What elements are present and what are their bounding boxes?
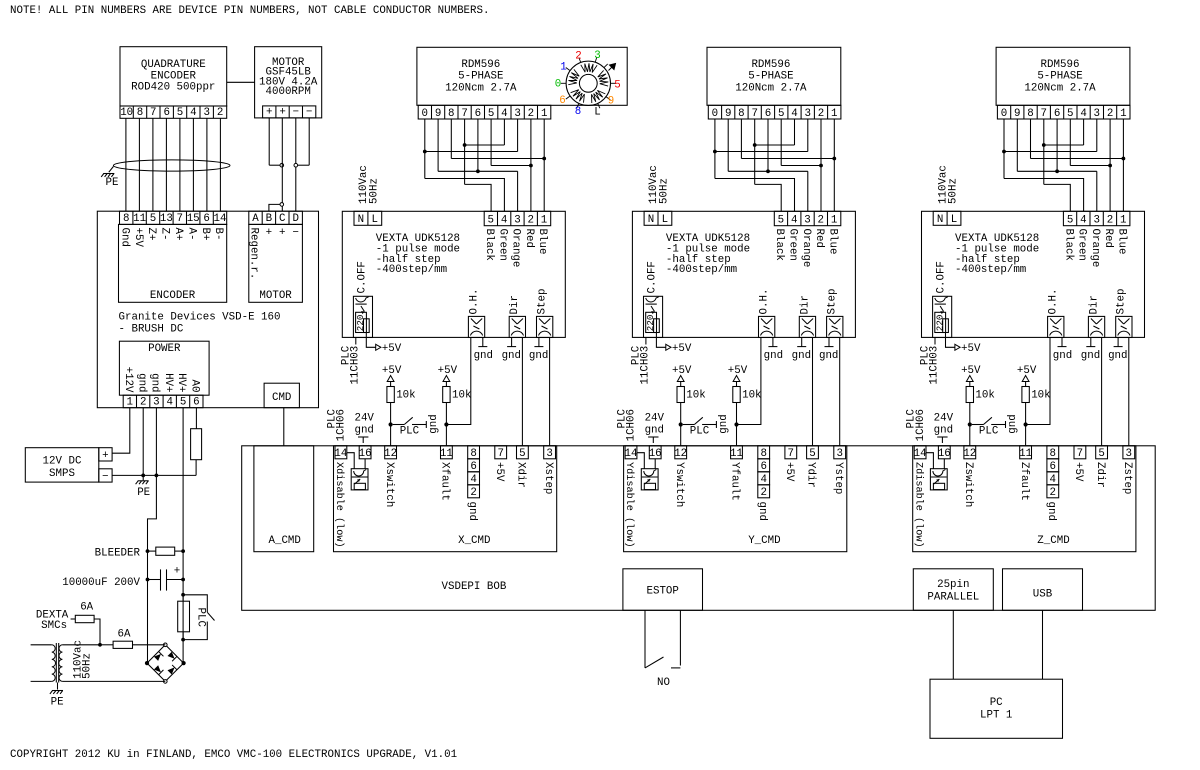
svg-text:ROD420 500ppr: ROD420 500ppr	[131, 81, 215, 93]
svg-text:PLC: PLC	[690, 425, 710, 437]
svg-text:220: 220	[934, 315, 945, 332]
svg-text:C: C	[279, 213, 286, 225]
svg-text:Step: Step	[827, 289, 839, 315]
svg-text:Yfault: Yfault	[729, 462, 741, 501]
svg-text:PARALLEL: PARALLEL	[927, 592, 979, 604]
svg-text:120Ncm 2.7A: 120Ncm 2.7A	[445, 82, 517, 94]
svg-text:A_CMD: A_CMD	[268, 535, 300, 547]
svg-text:Dir: Dir	[509, 295, 521, 314]
svg-text:6: 6	[203, 213, 209, 225]
svg-text:14: 14	[625, 448, 638, 460]
svg-text:6: 6	[1054, 108, 1060, 120]
svg-text:2: 2	[818, 108, 824, 120]
svg-text:2: 2	[528, 108, 534, 120]
svg-text:4: 4	[501, 215, 507, 227]
svg-text:12: 12	[963, 448, 976, 460]
svg-text:3: 3	[514, 215, 520, 227]
svg-text:Orange: Orange	[800, 229, 812, 268]
svg-text:9: 9	[435, 108, 441, 120]
svg-text:16: 16	[359, 448, 372, 460]
svg-text:PLC: PLC	[979, 425, 999, 437]
svg-text:7: 7	[1077, 448, 1083, 460]
svg-text:5-PHASE: 5-PHASE	[1037, 71, 1082, 83]
svg-text:10k: 10k	[396, 390, 415, 402]
svg-text:11CH03: 11CH03	[929, 346, 941, 385]
svg-text:A: A	[252, 213, 259, 225]
svg-text:Zfault: Zfault	[1018, 462, 1030, 501]
svg-text:O.H.: O.H.	[468, 289, 480, 315]
svg-text:8: 8	[738, 108, 744, 120]
svg-text:+: +	[279, 227, 285, 239]
svg-text:5-PHASE: 5-PHASE	[748, 71, 793, 83]
svg-text:6A: 6A	[118, 629, 131, 641]
svg-text:9: 9	[1014, 108, 1020, 120]
svg-text:16: 16	[649, 448, 662, 460]
svg-text:-400step/mm: -400step/mm	[666, 264, 737, 276]
svg-text:Black: Black	[1062, 229, 1074, 261]
svg-text:7: 7	[461, 108, 467, 120]
svg-text:Z+: Z+	[145, 228, 157, 241]
svg-text:+5V: +5V	[961, 365, 981, 377]
svg-text:gnd: gnd	[149, 373, 161, 392]
svg-text:Y_CMD: Y_CMD	[748, 535, 780, 547]
svg-text:Green: Green	[787, 229, 799, 261]
svg-text:Ydir: Ydir	[805, 462, 817, 488]
svg-text:NOTE! ALL PIN NUMBERS ARE DEVI: NOTE! ALL PIN NUMBERS ARE DEVICE PIN NUM…	[10, 5, 489, 17]
svg-text:gnd: gnd	[474, 350, 493, 362]
svg-text:1: 1	[831, 215, 837, 227]
svg-text:2: 2	[528, 215, 534, 227]
svg-text:4: 4	[791, 215, 797, 227]
svg-text:gnd: gnd	[764, 350, 783, 362]
svg-text:B-: B-	[212, 228, 224, 241]
svg-text:- BRUSH DC: - BRUSH DC	[119, 323, 184, 335]
svg-text:Xdisable (low): Xdisable (low)	[333, 462, 345, 548]
svg-text:50Hz: 50Hz	[659, 178, 671, 204]
svg-text:N: N	[648, 214, 654, 226]
svg-text:+5V: +5V	[493, 462, 505, 482]
svg-text:50Hz: 50Hz	[81, 653, 93, 679]
svg-text:3: 3	[804, 215, 810, 227]
svg-text:Red: Red	[523, 229, 535, 248]
svg-text:−: −	[292, 227, 298, 239]
svg-text:7: 7	[150, 107, 156, 119]
svg-text:14: 14	[914, 448, 927, 460]
svg-text:10k: 10k	[975, 390, 994, 402]
svg-text:8: 8	[448, 108, 454, 120]
svg-text:D: D	[292, 213, 298, 225]
svg-text:L: L	[662, 214, 668, 226]
svg-text:50Hz: 50Hz	[948, 178, 960, 204]
svg-text:Green: Green	[496, 229, 508, 261]
svg-text:A-: A-	[185, 228, 197, 241]
svg-text:5: 5	[778, 108, 784, 120]
svg-text:2: 2	[1050, 487, 1056, 499]
svg-text:11: 11	[730, 448, 743, 460]
svg-text:5: 5	[614, 80, 620, 92]
svg-text:gnd: gnd	[502, 350, 521, 362]
svg-text:7: 7	[177, 213, 183, 225]
svg-text:1CH06: 1CH06	[626, 409, 638, 441]
svg-text:10k: 10k	[1031, 390, 1050, 402]
svg-text:Red: Red	[1102, 229, 1114, 248]
svg-text:120Ncm 2.7A: 120Ncm 2.7A	[1024, 82, 1096, 94]
svg-text:10: 10	[120, 107, 133, 119]
svg-text:PC: PC	[990, 697, 1003, 709]
svg-text:MOTOR: MOTOR	[259, 290, 292, 302]
svg-text:+5V: +5V	[961, 343, 981, 355]
svg-text:14: 14	[214, 213, 227, 225]
svg-text:gnd: gnd	[934, 424, 953, 436]
svg-text:Blue: Blue	[826, 229, 838, 255]
svg-text:11: 11	[440, 448, 453, 460]
svg-text:−: −	[102, 471, 108, 483]
svg-text:+5V: +5V	[382, 343, 402, 355]
svg-text:+5V: +5V	[672, 365, 692, 377]
svg-text:CMD: CMD	[272, 392, 291, 404]
svg-text:10k: 10k	[686, 390, 705, 402]
svg-text:Ystep: Ystep	[832, 462, 844, 494]
svg-text:gnd: gnd	[645, 424, 664, 436]
svg-text:+5V: +5V	[1017, 365, 1037, 377]
svg-text:gnd: gnd	[819, 350, 838, 362]
svg-text:4: 4	[1080, 215, 1086, 227]
svg-text:USB: USB	[1033, 589, 1053, 601]
svg-text:8: 8	[137, 107, 143, 119]
svg-text:gnd: gnd	[135, 373, 147, 392]
svg-text:A0: A0	[189, 380, 201, 393]
svg-text:gnd: gnd	[1081, 350, 1100, 362]
svg-text:6: 6	[193, 397, 199, 409]
svg-text:1: 1	[560, 62, 566, 74]
svg-text:3: 3	[836, 448, 842, 460]
svg-text:HV+: HV+	[162, 373, 174, 392]
svg-text:HV+: HV+	[175, 373, 187, 392]
svg-text:Yswitch: Yswitch	[673, 462, 685, 507]
svg-text:5: 5	[488, 108, 494, 120]
svg-text:PLC: PLC	[195, 608, 207, 628]
svg-text:9: 9	[608, 96, 614, 108]
svg-text:SMPS: SMPS	[49, 468, 75, 480]
svg-text:Ydisable (low): Ydisable (low)	[623, 462, 635, 548]
svg-text:O.H.: O.H.	[1048, 289, 1060, 315]
svg-text:5: 5	[1067, 108, 1073, 120]
svg-text:C.OFF: C.OFF	[646, 261, 658, 293]
svg-text:10000uF 200V: 10000uF 200V	[62, 577, 140, 589]
svg-text:L: L	[594, 107, 600, 119]
svg-text:+5V: +5V	[728, 365, 748, 377]
svg-text:3: 3	[1126, 448, 1132, 460]
svg-text:gnd: gnd	[1053, 350, 1072, 362]
svg-text:ENCODER: ENCODER	[150, 290, 196, 302]
svg-text:BLEEDER: BLEEDER	[95, 547, 141, 559]
svg-text:Zdir: Zdir	[1094, 462, 1106, 488]
svg-text:5: 5	[180, 397, 186, 409]
svg-text:POWER: POWER	[148, 343, 181, 355]
svg-text:6: 6	[475, 108, 481, 120]
svg-text:Dir: Dir	[1088, 295, 1100, 314]
svg-text:24V: 24V	[645, 412, 665, 424]
svg-text:+: +	[266, 227, 272, 239]
svg-text:Dir: Dir	[799, 295, 811, 314]
svg-text:ESTOP: ESTOP	[646, 586, 678, 598]
svg-text:14: 14	[334, 448, 347, 460]
svg-text:gnd: gnd	[1007, 414, 1019, 433]
svg-text:2: 2	[470, 487, 476, 499]
svg-text:gnd: gnd	[428, 414, 440, 433]
svg-text:2: 2	[818, 215, 824, 227]
svg-text:220: 220	[645, 315, 656, 332]
svg-text:3: 3	[1094, 108, 1100, 120]
svg-text:3: 3	[514, 108, 520, 120]
svg-text:1: 1	[1120, 108, 1126, 120]
svg-text:Orange: Orange	[1089, 229, 1101, 268]
svg-text:C.OFF: C.OFF	[356, 261, 368, 293]
svg-text:+: +	[102, 450, 108, 462]
svg-text:24V: 24V	[354, 412, 374, 424]
svg-text:8: 8	[123, 213, 129, 225]
svg-text:5: 5	[1067, 215, 1073, 227]
svg-text:11: 11	[133, 213, 146, 225]
svg-text:Gnd: Gnd	[118, 228, 130, 247]
svg-text:7: 7	[788, 448, 794, 460]
svg-text:3: 3	[1093, 215, 1099, 227]
svg-text:1: 1	[1120, 215, 1126, 227]
svg-text:Xfault: Xfault	[439, 462, 451, 501]
svg-text:6: 6	[163, 107, 169, 119]
svg-text:15: 15	[187, 213, 200, 225]
svg-text:Zstep: Zstep	[1121, 462, 1133, 494]
svg-text:+5V: +5V	[382, 365, 402, 377]
svg-text:6: 6	[765, 108, 771, 120]
svg-text:6A: 6A	[80, 602, 93, 614]
svg-text:C.OFF: C.OFF	[936, 261, 948, 293]
svg-text:Regen.r.: Regen.r.	[248, 228, 260, 280]
svg-text:VSDEPI BOB: VSDEPI BOB	[442, 581, 507, 593]
svg-text:+: +	[266, 107, 272, 119]
svg-text:1: 1	[541, 215, 547, 227]
svg-text:24V: 24V	[934, 412, 954, 424]
svg-text:7: 7	[751, 108, 757, 120]
svg-text:A+: A+	[172, 228, 184, 241]
svg-text:LPT 1: LPT 1	[980, 710, 1012, 722]
svg-text:8: 8	[1027, 108, 1033, 120]
svg-text:10k: 10k	[742, 390, 761, 402]
svg-text:PE: PE	[106, 177, 119, 189]
svg-text:4: 4	[791, 108, 797, 120]
svg-text:RDM596: RDM596	[1041, 59, 1080, 71]
svg-text:-400step/mm: -400step/mm	[376, 264, 447, 276]
svg-text:+5V: +5V	[783, 462, 795, 482]
svg-text:Green: Green	[1076, 229, 1088, 261]
svg-text:B: B	[266, 213, 273, 225]
svg-text:12: 12	[384, 448, 397, 460]
svg-text:COPYRIGHT 2012 KU in FINLAND,: COPYRIGHT 2012 KU in FINLAND, EMCO VMC-1…	[10, 749, 457, 761]
svg-text:5: 5	[809, 448, 815, 460]
svg-text:3: 3	[594, 50, 600, 62]
svg-text:+5V: +5V	[672, 343, 692, 355]
svg-text:gnd: gnd	[354, 424, 373, 436]
svg-text:Z-: Z-	[159, 228, 171, 241]
svg-text:PE: PE	[137, 487, 150, 499]
svg-text:+5V: +5V	[1072, 462, 1084, 482]
svg-text:5: 5	[488, 215, 494, 227]
svg-text:−: −	[306, 107, 312, 119]
svg-text:Xswitch: Xswitch	[383, 462, 395, 507]
svg-text:0: 0	[712, 108, 718, 120]
svg-text:2: 2	[217, 107, 223, 119]
svg-text:+: +	[279, 107, 285, 119]
svg-text:16: 16	[938, 448, 951, 460]
svg-text:13: 13	[160, 213, 173, 225]
svg-text:Blue: Blue	[1116, 229, 1128, 255]
svg-text:5: 5	[1098, 448, 1104, 460]
svg-text:4: 4	[1080, 108, 1086, 120]
svg-text:−: −	[293, 107, 299, 119]
svg-text:N: N	[937, 214, 943, 226]
svg-text:3: 3	[805, 108, 811, 120]
svg-text:6: 6	[559, 95, 565, 107]
svg-text:50Hz: 50Hz	[369, 178, 381, 204]
svg-text:5: 5	[778, 215, 784, 227]
svg-text:Granite Devices VSD-E 160: Granite Devices VSD-E 160	[119, 312, 281, 324]
svg-text:2: 2	[760, 487, 766, 499]
svg-text:Red: Red	[813, 229, 825, 248]
svg-text:2: 2	[140, 397, 146, 409]
svg-text:+12V: +12V	[122, 367, 134, 393]
svg-text:1: 1	[541, 108, 547, 120]
svg-text:1: 1	[127, 397, 133, 409]
svg-text:5: 5	[519, 448, 525, 460]
svg-text:gnd: gnd	[466, 502, 478, 521]
svg-text:1: 1	[831, 108, 837, 120]
svg-text:NO: NO	[657, 677, 670, 689]
svg-text:5: 5	[150, 213, 156, 225]
svg-text:QUADRATURE: QUADRATURE	[141, 59, 206, 71]
svg-text:O.H.: O.H.	[759, 289, 771, 315]
svg-text:2: 2	[575, 51, 581, 63]
svg-text:25pin: 25pin	[937, 579, 969, 591]
svg-text:3: 3	[546, 448, 552, 460]
svg-text:X_CMD: X_CMD	[458, 535, 490, 547]
svg-text:5-PHASE: 5-PHASE	[458, 71, 503, 83]
svg-text:Xdir: Xdir	[515, 462, 527, 488]
svg-text:L: L	[951, 214, 957, 226]
svg-text:12V DC: 12V DC	[43, 456, 82, 468]
svg-text:220: 220	[355, 315, 366, 332]
svg-text:2: 2	[1107, 108, 1113, 120]
svg-text:0: 0	[555, 79, 561, 91]
svg-text:1CH06: 1CH06	[915, 409, 927, 441]
svg-text:Xstep: Xstep	[542, 462, 554, 494]
svg-text:7: 7	[497, 448, 503, 460]
svg-text:SMCs: SMCs	[41, 620, 67, 632]
svg-text:Orange: Orange	[510, 229, 522, 268]
svg-text:0: 0	[1001, 108, 1007, 120]
svg-text:10k: 10k	[452, 390, 471, 402]
svg-text:+5V: +5V	[132, 228, 144, 248]
svg-text:3: 3	[153, 397, 159, 409]
svg-text:12: 12	[674, 448, 687, 460]
svg-text:Step: Step	[1116, 289, 1128, 315]
svg-text:N: N	[358, 214, 364, 226]
svg-text:4000RPM: 4000RPM	[266, 86, 311, 98]
svg-text:120Ncm 2.7A: 120Ncm 2.7A	[735, 82, 807, 94]
svg-text:-400step/mm: -400step/mm	[955, 264, 1026, 276]
svg-text:Step: Step	[537, 289, 549, 315]
svg-text:4: 4	[190, 107, 196, 119]
svg-text:RDM596: RDM596	[751, 59, 790, 71]
svg-text:Black: Black	[483, 229, 495, 261]
svg-text:4: 4	[501, 108, 507, 120]
svg-text:gnd: gnd	[792, 350, 811, 362]
svg-text:L: L	[372, 214, 378, 226]
svg-text:B+: B+	[199, 228, 211, 241]
svg-text:+5V: +5V	[438, 365, 458, 377]
svg-text:3: 3	[203, 107, 209, 119]
svg-text:7: 7	[1041, 108, 1047, 120]
svg-text:gnd: gnd	[529, 350, 548, 362]
svg-text:Black: Black	[773, 229, 785, 261]
svg-text:Blue: Blue	[536, 229, 548, 255]
svg-text:PE: PE	[51, 697, 64, 709]
svg-text:11CH03: 11CH03	[349, 346, 361, 385]
svg-text:0: 0	[422, 108, 428, 120]
svg-text:PLC: PLC	[400, 425, 420, 437]
svg-text:8: 8	[575, 106, 581, 118]
svg-text:RDM596: RDM596	[461, 59, 500, 71]
svg-text:2: 2	[1107, 215, 1113, 227]
svg-text:5: 5	[177, 107, 183, 119]
svg-text:Zdisable (low): Zdisable (low)	[912, 462, 924, 548]
svg-text:gnd: gnd	[1045, 502, 1057, 521]
svg-text:11CH03: 11CH03	[639, 346, 651, 385]
svg-text:Zswitch: Zswitch	[962, 462, 974, 507]
svg-text:4: 4	[167, 397, 173, 409]
svg-text:9: 9	[725, 108, 731, 120]
svg-text:gnd: gnd	[718, 414, 730, 433]
svg-text:Z_CMD: Z_CMD	[1037, 535, 1069, 547]
svg-text:+: +	[174, 566, 180, 578]
svg-text:1CH06: 1CH06	[336, 409, 348, 441]
svg-text:gnd: gnd	[756, 502, 768, 521]
svg-text:gnd: gnd	[1108, 350, 1127, 362]
svg-text:11: 11	[1019, 448, 1032, 460]
